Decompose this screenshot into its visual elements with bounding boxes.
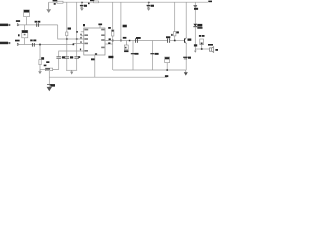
node junction base [174, 40, 176, 42]
capacitor C1 in L line [37, 23, 39, 27]
IC bottom inside label [95, 53, 97, 55]
label x121 column [123, 25, 127, 28]
resistor R6 column x175 from rail [174, 2, 176, 31]
capacitor C8 label [50, 84, 55, 87]
dark mark left of flag2 [88, 3, 90, 4]
pin number 5 [80, 49, 81, 51]
IC U1 body [84, 28, 105, 55]
node junction x121 [120, 40, 122, 42]
speaker label right [215, 49, 218, 51]
pot P2 side label [18, 34, 20, 36]
ground stub below speaker line [194, 49, 197, 53]
wire column B from rail [66, 2, 68, 32]
pot P2 between lines [22, 25, 28, 45]
capacitor column x152 [151, 41, 153, 71]
connector pin L [17, 23, 19, 26]
capacitor C3 to ground on rail x82 [80, 2, 84, 11]
node jog dot [73, 44, 75, 46]
wire column C from rail [76, 2, 78, 56]
resistor R3 body [66, 32, 68, 36]
node junction B on L1 [66, 38, 68, 40]
label flag2 on rail [90, 0, 94, 1]
IC right pin stub y44 [105, 43, 113, 45]
text AUX IN L [0, 24, 10, 27]
node junction x113 on out line [112, 40, 114, 42]
capacitor C4 plates column A [56, 57, 61, 59]
component box horizontal R4 [45, 68, 52, 71]
capacitor plate x133 [131, 53, 135, 55]
node junction R line x40 [39, 44, 41, 46]
connector label below [124, 50, 128, 52]
box label above [199, 35, 205, 37]
transistor Q1 [184, 38, 186, 44]
emitter wire down [185, 44, 187, 70]
capacitor C6 plates column C [74, 57, 79, 59]
wire ground return y77.2 [49, 76, 167, 78]
emitter capacitor second plate [184, 58, 187, 60]
capacitor C9 label [166, 36, 170, 38]
capacitor C8 plates x49 [47, 83, 52, 85]
capacitor C10 to ground on rail x148 [147, 2, 151, 11]
R4 label above [44, 65, 47, 67]
collector wire to rail [185, 2, 187, 37]
resistor R6 body [174, 32, 176, 36]
component box column x167 [165, 57, 170, 70]
resistor R3 label [68, 28, 71, 30]
connector box below out line [124, 41, 128, 50]
diode column x195 from rail [194, 2, 196, 24]
R4 dark fill [46, 68, 50, 69]
ground arrow below x40 [38, 69, 42, 74]
capacitor C5 plates column B [65, 57, 70, 59]
capacitor C2 label [30, 40, 36, 42]
resistor R6 label left [171, 34, 172, 36]
connector label above line [123, 37, 127, 39]
capacitor C5 label [70, 56, 73, 58]
capacitor label x152 [155, 53, 159, 55]
value label on x113 column [108, 56, 113, 58]
resistor R2 body [39, 60, 41, 65]
pin number 2 [80, 34, 81, 36]
transistor Q1 label [188, 39, 192, 41]
pin number 3 [80, 37, 81, 39]
IC inside labels [84, 29, 104, 52]
box above speaker line [200, 39, 204, 49]
speaker label above [208, 44, 213, 46]
emitter capacitor label [188, 57, 191, 59]
rail end label [208, 1, 212, 3]
wire input R line [19, 44, 73, 46]
text AUX IN R [0, 42, 10, 45]
pin number 1 [76, 31, 78, 33]
pot P1 above L line [24, 10, 30, 25]
switch S1 body on rail [57, 1, 63, 3]
wire column A down [45, 58, 58, 69]
IC bottom pin wire [94, 55, 96, 77]
speaker LS1 [209, 47, 213, 53]
ground arrow under bar [70, 70, 73, 74]
pin L label [16, 20, 20, 22]
resistor R2 column x40 [39, 45, 41, 60]
capacitor C6 label [78, 56, 80, 58]
wire speaker line [195, 48, 209, 50]
wire feedback W3 from IC pin [59, 51, 84, 56]
node junction x167 on bus1 [166, 69, 168, 71]
wire out line from IC [105, 40, 168, 42]
resistor R6 label right [176, 31, 179, 33]
capacitor C7 label [136, 37, 141, 39]
capacitor label x195 [194, 8, 198, 10]
power flag arrow top-left [46, 2, 51, 13]
capacitor C1 label [35, 21, 41, 23]
wire L corner down to L1 [58, 25, 84, 39]
node junction x202 [201, 48, 203, 50]
node junction C on L1 [76, 38, 78, 40]
IC right pin number top [109, 38, 111, 40]
label under bus end [165, 75, 168, 77]
ground arrow at bus1 end [184, 70, 188, 76]
small dot on out line [129, 40, 131, 42]
IC corner label [83, 24, 85, 26]
dark mark under rail [54, 3, 56, 5]
box flag2 on rail [94, 1, 99, 3]
capacitor plates near rail [194, 5, 198, 6]
capacitor mark x195 lower [194, 44, 197, 46]
capacitor series C9 x168 [168, 38, 170, 42]
resistor R5 label left [108, 27, 111, 29]
resistor R5 column x113 from rail [112, 2, 114, 30]
capacitor on emitter [183, 56, 187, 58]
diode D1 label two rows [197, 24, 202, 29]
pin number 4 [80, 41, 81, 43]
resistor R2 label [41, 57, 44, 60]
wire R jog to IC [73, 43, 84, 44]
small label right [46, 61, 49, 63]
wire column x121 from rail [120, 2, 122, 40]
wire to Q base [170, 40, 184, 42]
capacitor series C7 in out line [136, 38, 138, 43]
capacitor C10 label [151, 5, 154, 7]
resistor R5 dark top [112, 30, 114, 32]
capacitor C3 label [84, 5, 87, 7]
connector pin R [17, 43, 19, 46]
IC left pin stub 1 [81, 31, 84, 33]
wire column x49 down from box [48, 71, 50, 87]
wire ground bus1 [113, 69, 186, 71]
wire input L line [19, 24, 58, 26]
wire top supply rail [49, 1, 208, 3]
pin R label [15, 40, 20, 42]
capacitor plate x152 [150, 53, 154, 55]
wire bar joining B C bottoms [66, 69, 77, 71]
capacitor label x133 [135, 53, 139, 55]
IC top pin stub [99, 25, 101, 28]
capacitor column x133 [132, 41, 134, 71]
wire h line to box [40, 68, 45, 70]
IC right pin number bottom [108, 42, 110, 44]
IC left pin stub 2 [81, 35, 84, 37]
capacitor C4 label [62, 56, 65, 58]
IC top pin label [98, 24, 102, 26]
IC bottom pin label [91, 58, 95, 60]
capacitor C2 in R line [32, 43, 34, 47]
label S1 on rail [53, 0, 58, 1]
ground arrow big bottom-left [47, 87, 52, 91]
diode D1 [193, 24, 197, 27]
resistor R5 body [112, 30, 114, 36]
